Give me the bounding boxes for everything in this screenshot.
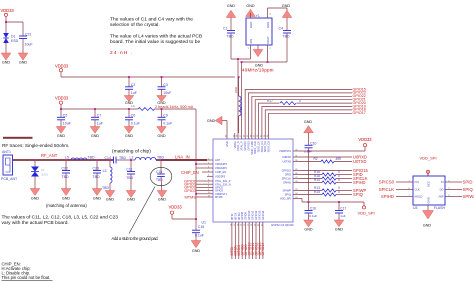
pin 24 SPIQ of U1 <box>293 194 299 196</box>
wire <box>308 151 310 202</box>
svg-text:C4: C4 <box>279 27 284 31</box>
svg-text:C16: C16 <box>310 206 316 210</box>
wire <box>195 109 197 219</box>
node junction <box>308 150 310 152</box>
svg-text:MTDO: MTDO <box>237 212 241 220</box>
svg-text:C10: C10 <box>310 141 316 145</box>
resistor R15 0 (series SPIQ) <box>299 194 322 196</box>
svg-text:0.1uF: 0.1uF <box>309 214 317 218</box>
ground (under C23) <box>92 189 102 196</box>
svg-text:LNA_IN: LNA_IN <box>175 155 190 160</box>
pin 3 /WP of U3 <box>445 196 451 198</box>
pin 4 GND of U3 <box>427 205 429 211</box>
svg-text:0: 0 <box>299 99 301 103</box>
ground (IC top GND pin, points left) <box>215 116 222 124</box>
svg-text:C11: C11 <box>126 167 132 171</box>
svg-text:TBD: TBD <box>62 175 69 179</box>
capacitor C2 1uF <box>128 77 130 87</box>
wire <box>222 120 227 122</box>
wire (bottom pin breakout) <box>255 228 257 259</box>
svg-text:Add a stub to the ground pad.: Add a stub to the ground pad. <box>112 236 159 241</box>
svg-text:The values of C1 and C4 vary w: The values of C1 and C4 vary with the <box>110 17 193 23</box>
svg-text:XTAL_P: XTAL_P <box>240 141 244 151</box>
node junction <box>96 159 98 161</box>
svg-text:C7: C7 <box>97 113 102 117</box>
svg-text:VDD33: VDD33 <box>358 137 372 142</box>
node node VDD33/C15 <box>195 218 197 220</box>
node junction <box>338 201 340 203</box>
capacitor C10 0.1uF <box>308 133 310 146</box>
pin 21 GPIO14 of U1 (bottom) <box>262 222 264 228</box>
svg-text:SPIQ: SPIQ <box>463 187 474 192</box>
ground (under U3, points down) <box>423 211 434 220</box>
ground (under C7) <box>90 127 100 134</box>
wire (bottom pin breakout) <box>231 228 233 259</box>
wire <box>267 50 269 62</box>
svg-text:40MHz/10ppm: 40MHz/10ppm <box>242 68 274 73</box>
wire <box>231 58 251 60</box>
svg-text:GND: GND <box>91 134 100 138</box>
pin 40 GND of U1 (top) <box>226 133 228 139</box>
node node VDDA/L4 <box>238 76 240 78</box>
svg-text:MTCK: MTCK <box>233 212 237 220</box>
svg-text:DO: DO <box>440 188 444 192</box>
svg-text:C14: C14 <box>105 156 111 160</box>
wire (bottom pin breakout) <box>248 228 250 259</box>
svg-text:CHIP_EN: CHIP_EN <box>181 170 199 175</box>
svg-text:TBD: TBD <box>102 186 109 190</box>
svg-text:GND: GND <box>2 61 11 65</box>
ground (under C2) <box>124 96 134 102</box>
pin 1 ANT of U1 <box>207 159 213 161</box>
svg-text:0.1uF: 0.1uF <box>304 150 312 154</box>
svg-text:R14: R14 <box>314 178 320 182</box>
node node VDD33/D1/C21 <box>5 21 7 23</box>
wire <box>172 218 196 220</box>
node junction <box>195 163 197 165</box>
svg-text:499: 499 <box>336 157 342 161</box>
svg-text:C21: C21 <box>25 33 31 37</box>
svg-text:selection of the crystal.: selection of the crystal. <box>110 22 160 28</box>
svg-text:SPICLK: SPICLK <box>282 177 291 181</box>
svg-text:C6: C6 <box>131 113 136 117</box>
svg-text:(matching of antenna): (matching of antenna) <box>46 203 87 208</box>
pin 4 of Y1 <box>250 13 252 18</box>
wire <box>196 163 207 165</box>
wire <box>226 121 228 134</box>
pin 25 SPIWP of U1 <box>293 190 299 192</box>
callout line from C18 to note <box>129 187 155 234</box>
ground (under C22) <box>61 189 71 196</box>
svg-text:SPID: SPID <box>285 173 291 177</box>
svg-text:board. The initial value is su: board. The initial value is suggested to… <box>110 39 200 45</box>
highlight ellipse around C18 <box>150 167 172 185</box>
pin 15 GPIO8 of U1 (bottom) <box>241 222 243 228</box>
pin 2 VDDA3P3 of U1 <box>207 163 213 165</box>
svg-text:GND: GND <box>31 197 40 201</box>
svg-text:TBD: TBD <box>93 175 100 179</box>
wire <box>396 189 407 191</box>
wire <box>299 198 302 200</box>
wire <box>451 189 462 191</box>
svg-text:VDD3P3: VDD3P3 <box>215 174 226 178</box>
svg-text:GND: GND <box>57 134 66 138</box>
svg-text:GPIO3: GPIO3 <box>184 188 196 193</box>
svg-text:C1: C1 <box>223 27 228 31</box>
wire <box>171 214 173 219</box>
svg-text:C22: C22 <box>62 166 68 170</box>
svg-text:C2: C2 <box>131 83 136 87</box>
svg-text:GPIO13: GPIO13 <box>258 210 262 220</box>
pin 23 VDD_SPI of U1 <box>293 198 299 200</box>
ground (under C18) <box>157 191 167 198</box>
wire (bottom pin breakout) <box>252 228 254 259</box>
pin 34 SDIO_CMD of U1 (top) <box>251 133 253 139</box>
pin 32 VDDPST2 of U1 <box>293 150 299 152</box>
wire <box>242 61 288 63</box>
svg-text:L1: L1 <box>131 104 135 108</box>
wire <box>197 186 208 188</box>
wire <box>197 180 208 182</box>
capacitor C15 0.1uF <box>195 219 197 230</box>
svg-text:GPIO8: GPIO8 <box>240 212 244 220</box>
svg-text:SPIHD: SPIHD <box>283 181 291 185</box>
svg-text:L3: L3 <box>103 169 107 173</box>
svg-text:GPIO14: GPIO14 <box>261 243 265 256</box>
pin 32 SDIO_D0 of U1 (top) <box>258 133 260 139</box>
wire <box>241 62 243 133</box>
ground (right, above C4, points up) <box>282 10 292 17</box>
svg-text:SDIO_D3: SDIO_D3 <box>267 141 271 153</box>
IC U1 ESP32-C6 QFN40 <box>213 139 293 222</box>
node junction <box>65 159 67 161</box>
svg-text:U0TXD: U0TXD <box>282 160 291 164</box>
pin 3 of Y1 <box>267 13 269 18</box>
capacitor C21 10uF <box>22 22 24 36</box>
svg-text:(matching of chip): (matching of chip) <box>112 148 151 154</box>
node junction <box>128 76 130 78</box>
svg-text:RF_ANT: RF_ANT <box>41 153 58 158</box>
wire <box>197 196 208 198</box>
resistor R2 499 (U0TXD series) <box>299 161 321 163</box>
svg-text:GND: GND <box>427 197 431 203</box>
svg-text:VDD33: VDD33 <box>55 96 69 101</box>
wire <box>230 33 232 59</box>
pin 17 GPIO10 of U1 (bottom) <box>248 222 250 228</box>
svg-text:U3: U3 <box>413 206 418 210</box>
ground (under C17) <box>334 220 344 227</box>
pin 1 /CS of U3 <box>407 181 413 183</box>
svg-text:C3: C3 <box>163 83 168 87</box>
wire (RF trace) <box>161 159 207 161</box>
pin 16 GPIO9 of U1 (bottom) <box>245 222 247 228</box>
capacitor C17 1uF <box>338 202 340 211</box>
node junction <box>308 201 310 203</box>
pin 31 U0RXD of U1 <box>293 156 299 158</box>
svg-text:VDD_SPI: VDD_SPI <box>357 211 374 216</box>
svg-text:VDD33: VDD33 <box>169 204 183 209</box>
ground (under C5) <box>56 127 66 134</box>
pin 7 XTAL_32K_N of U1 <box>207 183 213 185</box>
wire <box>61 76 235 78</box>
wire <box>268 7 288 9</box>
wire <box>396 196 407 198</box>
svg-text:GND: GND <box>282 4 291 8</box>
svg-text:GPIO12: GPIO12 <box>254 210 258 220</box>
svg-text:SPICLK: SPICLK <box>379 187 394 192</box>
wire <box>250 50 252 59</box>
pin 38 XTAL_N of U1 (top) <box>237 133 239 139</box>
wire <box>197 183 208 185</box>
wire <box>197 190 208 192</box>
pin 10 VDDPST1 of U1 <box>207 193 213 195</box>
wire (bottom pin breakout) <box>234 228 236 259</box>
wire (bottom pin breakout) <box>241 228 243 259</box>
svg-text:1uF: 1uF <box>340 214 345 218</box>
svg-text:SPICS0: SPICS0 <box>379 179 395 184</box>
pin 29 SDIO_D3 of U1 (top) <box>268 133 270 139</box>
pin 30 SDIO_D2 of U1 (top) <box>264 133 266 139</box>
ground (left, above C1, points up) <box>226 10 236 17</box>
wire (bottom pin breakout) <box>259 228 261 259</box>
svg-text:1uF: 1uF <box>131 91 137 95</box>
ground (under C9) <box>157 127 167 134</box>
svg-text:GND: GND <box>62 197 71 201</box>
svg-text:GND: GND <box>423 224 432 228</box>
pin 20 GPIO13 of U1 (bottom) <box>259 222 261 228</box>
svg-text:GND: GND <box>249 22 253 28</box>
wire <box>5 16 7 22</box>
pin 2 of Y1 <box>267 45 269 50</box>
pin 1 of Y1 <box>250 45 252 50</box>
svg-text:C18: C18 <box>156 170 162 174</box>
wire <box>451 181 462 183</box>
svg-text:ESD: ESD <box>11 39 19 43</box>
svg-text:C17: C17 <box>340 206 346 210</box>
svg-text:CHIP_EN: CHIP_EN <box>215 170 226 174</box>
svg-text:GND: GND <box>192 249 201 253</box>
svg-text:TBD: TBD <box>227 35 234 39</box>
wire <box>6 21 23 23</box>
svg-text:GND: GND <box>266 22 270 28</box>
svg-text:GPIO10: GPIO10 <box>247 210 251 220</box>
wire (RF trace) <box>156 159 207 161</box>
pin 27 SPICLK of U1 <box>293 178 299 180</box>
wire <box>61 108 138 110</box>
pin 12 MTDI of U1 (bottom) <box>231 222 233 228</box>
wire <box>299 170 352 172</box>
capacitor C5 10uF <box>60 109 62 117</box>
svg-text:0.1uF: 0.1uF <box>131 122 140 126</box>
wire (RF trace) <box>13 159 114 161</box>
ground (crystal pin 4, points up) <box>246 9 256 16</box>
resistor R16 0 (series SPID) <box>299 174 322 176</box>
svg-text:GND: GND <box>125 134 134 138</box>
wire (top pin to GPIO23) <box>249 93 353 133</box>
capacitor C9 0.1uF <box>161 109 163 117</box>
wire (bottom pin breakout) <box>262 228 264 259</box>
svg-text:FLASH: FLASH <box>434 206 446 210</box>
capacitor C1 TBD <box>227 30 235 32</box>
svg-text:VDD33: VDD33 <box>55 63 69 68</box>
svg-text:GPIO9: GPIO9 <box>244 212 248 220</box>
svg-text:R15: R15 <box>314 190 320 194</box>
svg-text:R17: R17 <box>267 99 273 103</box>
ground (under C11) <box>126 191 136 198</box>
svg-text:GND: GND <box>127 198 136 202</box>
svg-text:U0TXD: U0TXD <box>353 159 366 164</box>
svg-text:ANT: ANT <box>215 158 221 162</box>
wire <box>202 171 207 173</box>
svg-text:1uF: 1uF <box>97 122 103 126</box>
capacitor C6 0.1uF <box>128 109 130 117</box>
wire (top pin to GPIO21) <box>255 100 352 133</box>
svg-text:GND: GND <box>157 134 166 138</box>
wire <box>196 193 207 195</box>
svg-text:L5: L5 <box>65 155 69 159</box>
wire <box>364 147 366 151</box>
capacitor C7 1uF <box>94 109 96 117</box>
pin 30 U0TXD of U1 <box>293 161 299 163</box>
svg-text:TBD: TBD <box>88 155 95 159</box>
node junction <box>195 193 197 195</box>
svg-text:(ESD): (ESD) <box>41 173 48 177</box>
ground (under C3) <box>157 96 167 102</box>
pin 8 VCC of U3 <box>427 171 429 176</box>
svg-text:VDDA3P3: VDDA3P3 <box>215 166 227 170</box>
TVS diode D1 (ESD) <box>5 22 7 33</box>
svg-text:10uF: 10uF <box>63 122 71 126</box>
svg-text:GND: GND <box>246 4 255 8</box>
ground (below Y1, points down) <box>257 45 259 50</box>
svg-text:SPIHD: SPIHD <box>353 180 366 185</box>
pin 35 GPIO23 of U1 (top) <box>248 133 250 139</box>
resistor R18 0 (series SPICLK) <box>299 178 322 180</box>
wire (top pin to GPIO19) <box>262 107 352 134</box>
svg-text:TBD: TBD <box>283 35 290 39</box>
svg-text:GND: GND <box>304 120 313 124</box>
pin 2 DO of U3 <box>445 189 451 191</box>
svg-text:The value of L4 varies with th: The value of L4 varies with the actual P… <box>110 33 202 39</box>
svg-text:ANT1: ANT1 <box>2 150 11 154</box>
wire <box>155 108 197 110</box>
svg-text:0: 0 <box>338 178 340 182</box>
capacitor C4 TBD <box>286 18 288 31</box>
svg-text:GPIO11: GPIO11 <box>251 210 255 220</box>
antenna ANT1 (PCB_ANT) <box>3 155 13 175</box>
pin 3 VDDA3P3 of U1 <box>207 167 213 169</box>
svg-text:RF traces: Single-ended 50ohm: RF traces: Single-ended 50ohm. <box>2 143 69 148</box>
svg-text:MTMS: MTMS <box>185 194 197 199</box>
wire <box>60 104 62 109</box>
svg-text:10uF: 10uF <box>25 43 33 47</box>
wire <box>237 59 239 133</box>
pin 28 SPID of U1 <box>293 174 299 176</box>
svg-text:SPIWP: SPIWP <box>463 194 474 199</box>
svg-text:GND: GND <box>158 198 167 202</box>
svg-text:VDD_SPI: VDD_SPI <box>280 197 291 201</box>
pin 4 CHIP_EN of U1 <box>207 171 213 173</box>
svg-text:This pin could not be float.: This pin could not be float. <box>2 275 51 280</box>
svg-text:R2: R2 <box>314 157 318 161</box>
svg-text:GPIO14: GPIO14 <box>261 210 265 220</box>
pin 5 VDD3P3 of U1 <box>207 175 213 177</box>
svg-text:VDDPST2: VDDPST2 <box>279 149 292 153</box>
node junction <box>34 159 36 161</box>
svg-text:GND: GND <box>225 141 229 147</box>
svg-text:/HOLD: /HOLD <box>415 195 423 199</box>
wire (bottom pin breakout) <box>238 228 240 259</box>
svg-text:MTDI: MTDI <box>230 213 234 220</box>
ground (under D1) <box>1 53 11 60</box>
wire <box>396 181 407 183</box>
resistor R14 0 (series SPIHD) <box>299 182 322 184</box>
ground (above C10, points up) <box>304 126 314 133</box>
wire (top pin to GPIO22) <box>252 96 352 133</box>
pin 5 DI of U3 <box>445 181 451 183</box>
svg-text:VDD_SPI: VDD_SPI <box>419 156 436 161</box>
svg-text:D2: D2 <box>41 168 45 172</box>
pin 37 XTAL_P of U1 (top) <box>241 133 243 139</box>
ground (under C6) <box>124 127 134 134</box>
pin 6 XTAL_32K_P of U1 <box>207 180 213 182</box>
pin 19 GPIO12 of U1 (bottom) <box>255 222 257 228</box>
pin 8 GPIO2 of U1 <box>207 186 213 188</box>
pin 6 CLK of U3 <box>407 189 413 191</box>
pin 7 /HOLD of U3 <box>407 196 413 198</box>
wire <box>196 167 207 169</box>
svg-text:SPIQ: SPIQ <box>353 192 363 197</box>
svg-text:GND: GND <box>335 228 344 232</box>
wire (top pin to GPIO18) <box>265 110 352 133</box>
pin 9 GPIO3 of U1 <box>207 190 213 192</box>
wire <box>267 8 269 13</box>
node node XIN <box>237 58 239 60</box>
node junction <box>160 159 162 161</box>
wire <box>299 156 352 158</box>
ground (under C15) <box>191 241 201 248</box>
svg-text:10uF: 10uF <box>163 91 171 95</box>
svg-text:TBD: TBD <box>156 178 163 182</box>
svg-text:GND: GND <box>19 61 28 65</box>
wire (top pin to GPIO17) <box>269 113 352 133</box>
pin 29 GPIO15 of U1 <box>293 170 299 172</box>
node junction <box>161 108 163 110</box>
svg-text:VDD33: VDD33 <box>1 8 15 13</box>
ground (under C21) <box>18 53 28 60</box>
pin 11 MTMS of U1 <box>207 196 213 198</box>
svg-text:ESP32-C6 QFN40: ESP32-C6 QFN40 <box>271 223 294 227</box>
wire (top pin to GPIO15) <box>245 90 352 134</box>
svg-text:DI: DI <box>441 180 444 184</box>
IC U3 FLASH <box>413 176 445 205</box>
svg-text:U1: U1 <box>202 221 207 225</box>
wire <box>286 33 288 62</box>
svg-text:SPIWP: SPIWP <box>283 189 292 193</box>
svg-text:GPIO17: GPIO17 <box>353 111 366 115</box>
svg-text:PCB_ANT: PCB_ANT <box>1 177 18 181</box>
svg-text:/WP: /WP <box>439 195 444 199</box>
node junction <box>109 159 111 161</box>
svg-text:CLK: CLK <box>415 188 420 192</box>
wire (bottom pin breakout) <box>245 228 247 259</box>
svg-text:C15: C15 <box>198 225 204 229</box>
svg-text:VDDA3P3: VDDA3P3 <box>215 162 227 166</box>
svg-text:VCC: VCC <box>427 181 431 187</box>
wire <box>427 173 429 176</box>
svg-text:Y1: Y1 <box>256 14 260 18</box>
svg-text:GND: GND <box>304 228 313 232</box>
